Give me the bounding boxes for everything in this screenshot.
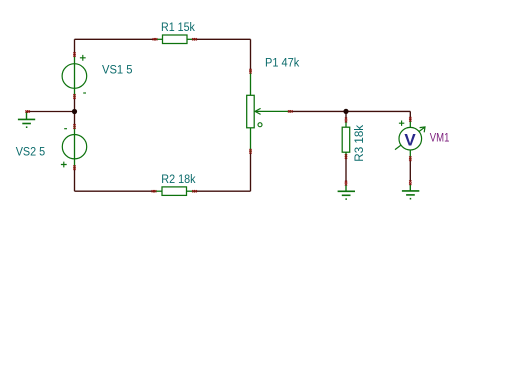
node A junction dot [72, 109, 77, 114]
pin mark P1 top [249, 69, 251, 74]
svg-text:V: V [404, 131, 416, 150]
wire VM1 bottom to right ground [409, 160, 411, 181]
pin mark VS1 bottom [73, 94, 75, 99]
pin mark R3 top [345, 118, 347, 123]
resistor R1 [155, 35, 195, 44]
pin mark VS1 top [73, 52, 75, 57]
pin mark R2 left [152, 190, 157, 192]
ground GND3 below VM1 [402, 184, 419, 199]
pin mark left ground [25, 110, 30, 112]
pin mark P1 bottom [249, 149, 251, 154]
pin mark R1 right [192, 38, 197, 40]
pin mark VS2 top [73, 124, 75, 129]
wire bottom rail left of R2 [75, 190, 155, 192]
svg-text:R2 18k: R2 18k [161, 174, 195, 186]
svg-text:P1 47k: P1 47k [265, 57, 299, 69]
wire R3 bottom to mid ground [345, 158, 347, 182]
svg-text:VS1 5: VS1 5 [102, 65, 133, 77]
pin mark VM1 bottom [409, 156, 411, 161]
wire node A to VS2 top [74, 112, 76, 126]
pin mark P1 wiper [288, 110, 293, 112]
potentiometer P1 [247, 70, 291, 153]
wire VS1 bottom to node A [74, 98, 76, 112]
svg-text:VS2 5: VS2 5 [16, 147, 46, 159]
wire VM1 corner down [409, 111, 411, 120]
voltage source VS1 [62, 55, 87, 98]
ground GND2 below R3 [338, 185, 355, 200]
resistor R2 [154, 187, 195, 196]
wire node B to VM1 corner [346, 110, 410, 112]
pin mark right ground [409, 180, 411, 185]
wire bottom rail right of R2 [195, 190, 251, 192]
ground GND1 left [18, 112, 35, 128]
pin mark VS2 bottom [73, 165, 75, 170]
node B junction dot [343, 109, 348, 114]
wire top-right drop to P1 [250, 39, 252, 70]
pin mark mid ground [345, 181, 347, 186]
pin mark VM1 top [409, 117, 411, 122]
wire node B down to R3 [345, 111, 347, 118]
voltmeter VM1 [395, 120, 425, 160]
wire VS2 bottom to bottom-left corner [74, 169, 76, 191]
voltage source VS2 [61, 126, 87, 169]
svg-text:R3 18k: R3 18k [354, 125, 366, 162]
wire VS1 top to top-left corner [74, 39, 76, 56]
wire bottom-right rise to P1 [250, 153, 252, 192]
svg-text:VM1: VM1 [430, 133, 450, 145]
wire top rail left of R1 [75, 38, 156, 40]
resistor R3 [342, 121, 350, 157]
wire node A to left ground [27, 111, 75, 113]
svg-text:R1 15k: R1 15k [161, 22, 195, 34]
pin mark R1 left [153, 38, 158, 40]
pin mark R3 bottom [345, 154, 347, 159]
wire top rail right of R1 [195, 38, 251, 40]
pin mark R2 right [192, 190, 197, 192]
wire wiper to node B [292, 110, 346, 112]
